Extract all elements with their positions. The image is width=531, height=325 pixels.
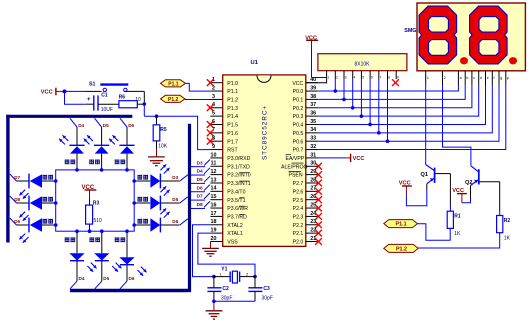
svg-text:8: 8 [388, 76, 390, 80]
svg-text:D6: D6 [129, 276, 135, 281]
svg-text:D5: D5 [103, 123, 109, 128]
svg-text:P3.7/RD: P3.7/RD [227, 215, 247, 221]
svg-text:30pF: 30pF [221, 296, 232, 302]
svg-text:31: 31 [310, 152, 316, 158]
svg-text:STC89C52RC+: STC89C52RC+ [262, 105, 269, 160]
svg-text:5: 5 [212, 111, 215, 117]
svg-text:ALE/PROG: ALE/PROG [281, 164, 308, 170]
svg-text:D9: D9 [14, 219, 20, 224]
svg-text:P3.2/INT0: P3.2/INT0 [227, 173, 250, 179]
svg-text:VCC: VCC [452, 188, 464, 194]
svg-text:7: 7 [380, 76, 382, 80]
svg-text:P0.2: P0.2 [293, 106, 304, 112]
svg-text:P3.5/T1: P3.5/T1 [227, 198, 245, 204]
svg-text:2: 2 [212, 85, 215, 91]
svg-text:VCC: VCC [292, 81, 303, 87]
svg-text:D7: D7 [14, 175, 20, 180]
svg-text:R6: R6 [119, 94, 126, 100]
svg-text:P0.7: P0.7 [293, 148, 304, 154]
svg-text:P2.2: P2.2 [293, 223, 304, 229]
svg-text:P2.5: P2.5 [293, 198, 304, 204]
svg-text:14: 14 [211, 186, 217, 192]
svg-text:+: + [87, 96, 91, 103]
svg-text:2: 2 [336, 76, 338, 80]
svg-text:EA/VPP: EA/VPP [286, 156, 305, 162]
svg-text:VCC: VCC [353, 156, 365, 162]
svg-text:D5: D5 [103, 276, 109, 281]
svg-text:P1.3: P1.3 [227, 106, 238, 112]
svg-text:XTAL1: XTAL1 [227, 231, 243, 237]
svg-text:3: 3 [212, 94, 215, 100]
svg-text:P0.6: P0.6 [293, 139, 304, 145]
svg-text:1: 1 [327, 76, 329, 80]
svg-text:R1: R1 [454, 214, 461, 220]
svg-text:15: 15 [211, 194, 217, 200]
svg-text:D3: D3 [172, 175, 178, 180]
svg-text:P2.0: P2.0 [293, 240, 304, 246]
svg-text:D7: D7 [197, 194, 203, 200]
svg-text:39: 39 [310, 85, 316, 91]
svg-text:10: 10 [135, 97, 141, 103]
svg-text:34: 34 [310, 127, 316, 133]
svg-text:P3.0/RXD: P3.0/RXD [227, 156, 250, 162]
svg-text:P2.1: P2.1 [293, 231, 304, 237]
svg-text:P1.2: P1.2 [227, 98, 238, 104]
svg-text:Y1: Y1 [221, 266, 227, 272]
svg-text:b: b [466, 76, 468, 80]
svg-text:P2.7: P2.7 [293, 181, 304, 187]
svg-text:9: 9 [212, 144, 215, 150]
svg-text:P1.5: P1.5 [227, 123, 238, 129]
svg-text:3: 3 [345, 76, 347, 80]
svg-text:a: a [460, 76, 462, 80]
svg-text:f: f [494, 76, 495, 80]
svg-text:D6: D6 [172, 219, 178, 224]
svg-text:6: 6 [371, 76, 373, 80]
svg-text:D5: D5 [197, 177, 203, 183]
svg-text:P0.4: P0.4 [293, 123, 304, 129]
svg-text:P1.6: P1.6 [227, 131, 238, 137]
svg-text:36: 36 [310, 111, 316, 117]
svg-text:1: 1 [427, 76, 429, 80]
svg-text:D5: D5 [172, 197, 178, 202]
svg-text:P2.4: P2.4 [293, 206, 304, 212]
svg-text:c: c [473, 76, 475, 80]
svg-text:P2.3: P2.3 [293, 215, 304, 221]
svg-text:17: 17 [211, 211, 217, 217]
svg-text:P1.1: P1.1 [396, 222, 407, 228]
svg-text:P0.3: P0.3 [293, 114, 304, 120]
svg-text:P1.2: P1.2 [168, 97, 179, 103]
svg-text:VSS: VSS [227, 240, 238, 246]
svg-text:37: 37 [310, 102, 316, 108]
svg-text:P1.0: P1.0 [227, 81, 238, 87]
svg-text:12: 12 [211, 169, 217, 175]
svg-text:13: 13 [211, 177, 217, 183]
svg-text:P1.1: P1.1 [227, 89, 238, 95]
svg-text:P3.4/T0: P3.4/T0 [227, 189, 245, 195]
svg-text:16: 16 [211, 202, 217, 208]
svg-text:R5: R5 [160, 127, 167, 133]
svg-text:D3: D3 [197, 160, 203, 166]
svg-text:P3.3/INT1: P3.3/INT1 [227, 181, 250, 187]
svg-text:D4: D4 [78, 123, 84, 128]
svg-text:g: g [500, 76, 502, 80]
svg-text:P1.1: P1.1 [168, 81, 179, 87]
svg-text:R3: R3 [93, 200, 100, 206]
svg-text:D8: D8 [14, 197, 20, 202]
svg-text:9: 9 [397, 76, 399, 80]
svg-text:P3.6/WR: P3.6/WR [227, 206, 248, 212]
svg-text:20: 20 [211, 236, 217, 242]
svg-text:e: e [487, 76, 489, 80]
svg-text:P0.0: P0.0 [293, 89, 304, 95]
svg-text:8X10K: 8X10K [354, 62, 370, 68]
svg-text:P1.7: P1.7 [227, 139, 238, 145]
svg-text:30pF: 30pF [262, 296, 273, 302]
svg-text:C3: C3 [263, 286, 270, 292]
svg-text:2: 2 [444, 76, 446, 80]
svg-text:C1: C1 [101, 92, 108, 98]
svg-text:5: 5 [362, 76, 364, 80]
svg-text:510: 510 [94, 218, 103, 224]
svg-text:SMG: SMG [404, 28, 416, 34]
svg-text:P1.4: P1.4 [227, 114, 238, 120]
svg-text:P3.1/TXD: P3.1/TXD [227, 164, 250, 170]
svg-text:D6: D6 [128, 123, 134, 128]
svg-text:1K: 1K [504, 235, 511, 241]
svg-text:R2: R2 [504, 218, 511, 224]
svg-text:38: 38 [310, 94, 316, 100]
svg-text:C2: C2 [222, 286, 229, 292]
svg-text:10UF: 10UF [101, 107, 113, 113]
svg-text:32: 32 [310, 144, 316, 150]
svg-text:19: 19 [211, 228, 217, 234]
svg-text:10K: 10K [158, 144, 168, 150]
svg-text:P0.1: P0.1 [293, 98, 304, 104]
svg-text:35: 35 [310, 119, 316, 125]
svg-text:S1: S1 [89, 81, 95, 87]
svg-text:d: d [480, 76, 482, 80]
svg-text:D4: D4 [79, 276, 85, 281]
svg-text:4: 4 [354, 76, 356, 80]
svg-text:P2.6: P2.6 [293, 189, 304, 195]
svg-text:1K: 1K [454, 231, 461, 237]
svg-text:p: p [507, 76, 509, 80]
svg-text:P1.2: P1.2 [396, 246, 407, 252]
svg-text:PSEN: PSEN [289, 173, 303, 179]
svg-text:U1: U1 [251, 60, 259, 66]
svg-text:P0.5: P0.5 [293, 131, 304, 137]
svg-text:D8: D8 [197, 202, 203, 208]
svg-text:D4: D4 [197, 169, 203, 175]
svg-text:VCC: VCC [399, 180, 411, 186]
svg-text:10: 10 [211, 152, 217, 158]
svg-text:Q1: Q1 [421, 172, 428, 178]
svg-text:18: 18 [211, 219, 217, 225]
svg-text:D6: D6 [197, 185, 203, 191]
svg-text:33: 33 [310, 136, 316, 142]
svg-text:11: 11 [211, 161, 217, 167]
svg-text:VCC: VCC [41, 90, 53, 96]
svg-text:XTAL2: XTAL2 [227, 223, 243, 229]
svg-text:RST: RST [227, 148, 238, 154]
